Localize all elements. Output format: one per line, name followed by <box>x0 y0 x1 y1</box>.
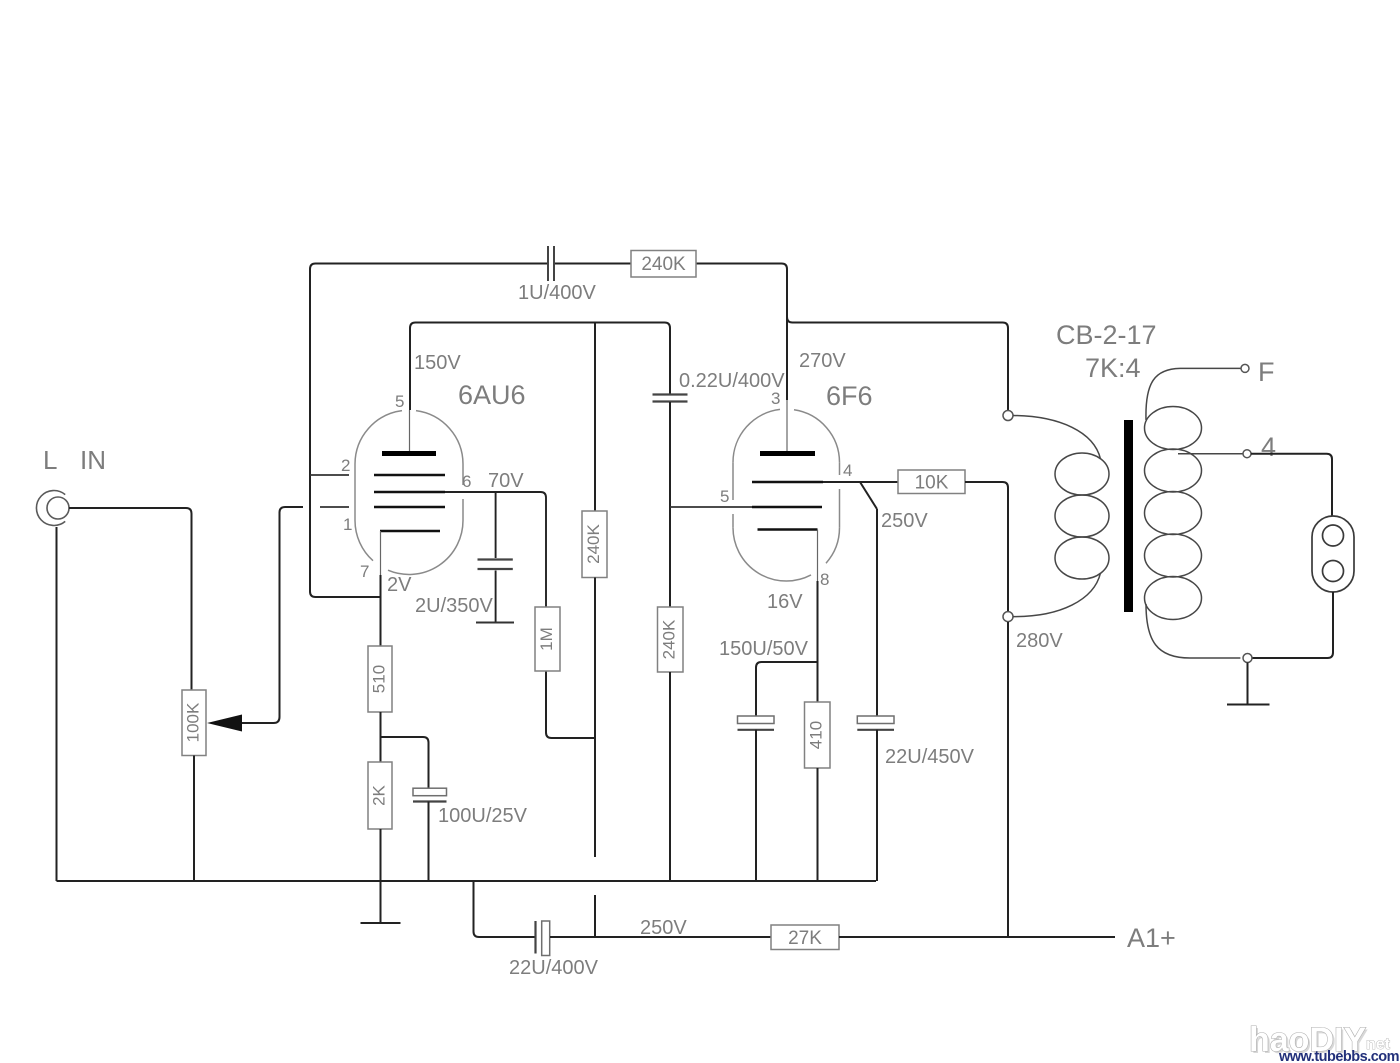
wire input ground drop <box>56 527 58 881</box>
ground bar 2U cap <box>476 622 514 624</box>
resistor 10K <box>898 470 965 494</box>
terminal F <box>1241 364 1249 372</box>
svg-text:2V: 2V <box>387 574 412 596</box>
wire speaker return <box>1252 592 1333 658</box>
svg-text:6F6: 6F6 <box>826 381 873 411</box>
svg-text:1: 1 <box>343 515 352 534</box>
resistor 27K <box>771 925 839 950</box>
svg-text:A1+: A1+ <box>1127 923 1176 953</box>
svg-text:250V: 250V <box>640 917 687 939</box>
svg-text:1M: 1M <box>537 627 556 651</box>
svg-text:www.tubebbs.com: www.tubebbs.com <box>1278 1049 1399 1063</box>
6AU6 cathode <box>380 530 440 533</box>
svg-text:240K: 240K <box>659 619 678 659</box>
svg-text:3: 3 <box>771 389 780 408</box>
svg-text:10K: 10K <box>915 473 949 494</box>
wire secondary tap 4 <box>1178 453 1243 455</box>
node primary bottom 280V <box>1003 612 1013 622</box>
svg-text:0.22U/400V: 0.22U/400V <box>679 370 785 392</box>
pot wiper arrow <box>207 715 242 732</box>
svg-text:5: 5 <box>720 487 729 506</box>
wire cathode bypass branch <box>381 737 429 788</box>
svg-text:L: L <box>43 445 57 475</box>
logo haoDIY.net <box>1249 1021 1399 1063</box>
svg-text:150V: 150V <box>414 352 461 374</box>
svg-text:1U/400V: 1U/400V <box>518 282 596 304</box>
resistor 240K feedback <box>631 251 696 278</box>
resistor 2K <box>368 762 392 829</box>
svg-text:6: 6 <box>462 472 471 491</box>
resistor 240K plate load <box>594 323 596 512</box>
svg-text:280V: 280V <box>1016 630 1063 652</box>
svg-text:2U/350V: 2U/350V <box>415 595 493 617</box>
ground secondary <box>1247 663 1249 704</box>
speaker jack <box>1312 516 1354 592</box>
node secondary bottom <box>1243 654 1252 663</box>
wire 6F6 cathode down <box>817 581 819 702</box>
wire 250V rail <box>550 936 771 938</box>
capacitor 0.22U/400V coupling <box>653 395 688 402</box>
6AU6 plate <box>382 451 436 456</box>
wire 6F6 screen to 10K <box>823 481 898 483</box>
resistor 410 <box>805 702 831 768</box>
tube 6AU6 envelope <box>355 411 402 464</box>
wire 2K to ground <box>380 829 382 923</box>
input jack connector <box>47 497 69 519</box>
wire 6AU6 screen 70V line <box>445 492 546 607</box>
svg-text:CB-2-17: CB-2-17 <box>1056 320 1157 350</box>
6F6 control grid <box>752 506 822 509</box>
svg-text:F: F <box>1258 357 1275 387</box>
svg-text:8: 8 <box>820 570 829 589</box>
capacitor 150U/50V <box>756 662 812 716</box>
svg-text:IN: IN <box>80 445 106 475</box>
svg-text:4: 4 <box>1261 432 1276 462</box>
svg-text:5: 5 <box>395 392 404 411</box>
svg-text:22U/450V: 22U/450V <box>885 746 975 768</box>
svg-text:70V: 70V <box>488 470 524 492</box>
wire input to pot <box>69 508 192 690</box>
wire 6AU6 plate 150V line <box>410 323 670 411</box>
svg-text:510: 510 <box>369 665 388 693</box>
wire 6AU6 cathode chain <box>380 575 382 646</box>
wire B+ branch down <box>474 881 536 937</box>
tube 6F6 envelope <box>733 409 780 462</box>
wire pot bottom to rail <box>193 756 195 882</box>
svg-text:6AU6: 6AU6 <box>458 380 526 410</box>
transformer secondary winding <box>1145 368 1241 658</box>
wire terminal 4 to speaker <box>1251 454 1332 516</box>
svg-text:2K: 2K <box>369 784 388 805</box>
capacitor 100U/25V <box>413 788 447 796</box>
node primary top <box>1003 411 1013 421</box>
wire secondary F lead <box>1180 367 1241 369</box>
capacitor 1U/400V <box>548 246 554 281</box>
capacitor 2U/350V <box>495 492 497 558</box>
wire wiper to 6AU6 grid pin 1 <box>242 507 303 723</box>
svg-text:410: 410 <box>806 721 825 749</box>
6AU6 grid g2 pin 6 <box>374 491 445 494</box>
wire feedback left vertical <box>310 264 381 598</box>
wire feedback top line <box>316 263 549 265</box>
svg-text:16V: 16V <box>767 591 803 613</box>
6AU6 grid g1 pin 1 <box>374 506 445 509</box>
ground symbol <box>361 922 401 924</box>
6F6 cathode pin 8 <box>758 528 818 531</box>
resistor 510 <box>368 646 392 712</box>
svg-text:240K: 240K <box>584 523 603 563</box>
capacitor 22U/400V <box>534 921 536 954</box>
transformer primary winding <box>1013 416 1109 617</box>
wire 6F6 grid pin 5 <box>670 506 752 508</box>
6F6 plate pin 3 <box>760 451 815 456</box>
svg-text:150U/50V: 150U/50V <box>719 638 809 660</box>
svg-text:27K: 27K <box>788 928 822 949</box>
potentiometer 100K <box>182 690 206 756</box>
capacitor 22U/450V <box>857 716 894 724</box>
svg-text:7K:4: 7K:4 <box>1085 353 1141 383</box>
resistor 1M <box>546 671 595 738</box>
svg-text:250V: 250V <box>881 510 928 532</box>
6F6 screen grid pin 4 <box>752 481 823 484</box>
svg-text:7: 7 <box>360 562 369 581</box>
terminal 4 <box>1243 450 1251 458</box>
transformer core <box>1124 420 1133 612</box>
svg-text:240K: 240K <box>641 254 686 275</box>
svg-text:270V: 270V <box>799 350 846 372</box>
wire primary bottom to B+ <box>1007 622 1009 937</box>
svg-text:22U/400V: 22U/400V <box>509 957 599 979</box>
wire 27K to A1+ <box>839 936 1115 938</box>
svg-text:100U/25V: 100U/25V <box>438 805 528 827</box>
svg-text:2: 2 <box>341 456 350 475</box>
wire 270V line to transformer <box>787 317 1008 410</box>
resistor 240K grid leak <box>658 607 684 672</box>
6AU6 grid g3 pin 2 <box>374 474 445 477</box>
wire 510 to 2K <box>380 712 382 762</box>
svg-text:100K: 100K <box>183 702 202 742</box>
ground rail <box>57 880 877 882</box>
svg-text:4: 4 <box>843 461 852 480</box>
